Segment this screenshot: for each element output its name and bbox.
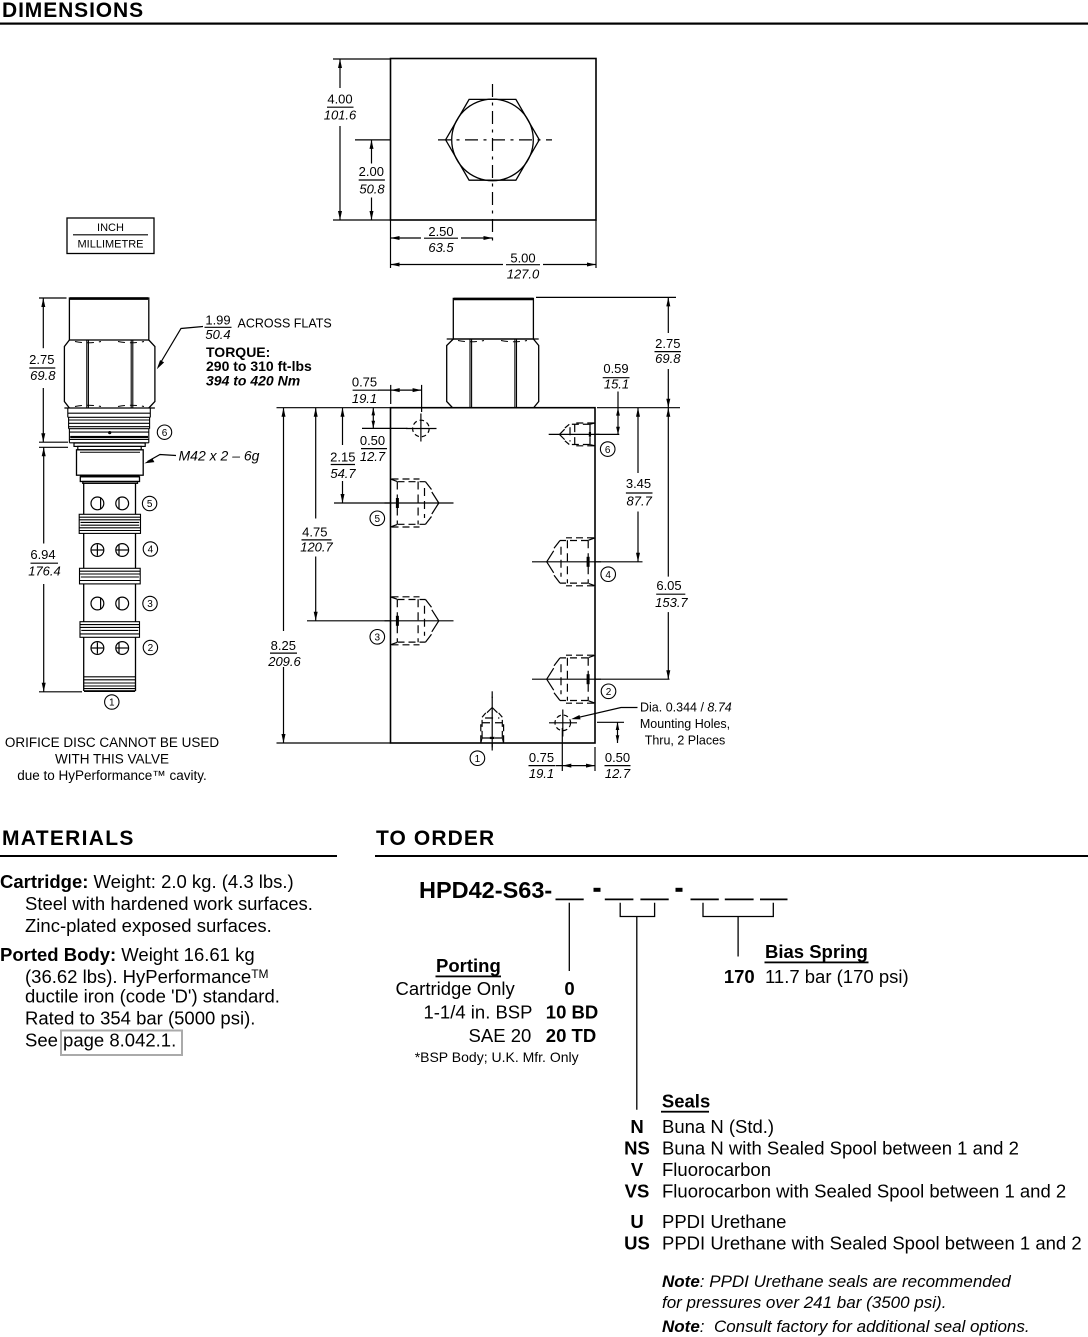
port 4 [532, 538, 601, 586]
heading DIMENSIONS [0, 0, 1088, 25]
dim 0.50 bottom [597, 722, 624, 743]
svg-text:1.99: 1.99 [205, 313, 230, 328]
dim 0.50 top [362, 408, 408, 429]
body bottom edge extension left [277, 742, 391, 744]
svg-text:2: 2 [148, 643, 154, 654]
svg-text:63.5: 63.5 [428, 240, 454, 255]
svg-text:19.1: 19.1 [529, 766, 554, 781]
svg-text:1: 1 [475, 754, 481, 765]
body label 3 [370, 630, 385, 645]
seals bracket [620, 903, 654, 1110]
svg-text:MATERIALS: MATERIALS [2, 827, 135, 850]
port 6 centerline extension [595, 433, 619, 435]
port 2 centerline extension [595, 678, 670, 680]
svg-text:127.0: 127.0 [507, 267, 540, 282]
leader across flats [158, 327, 203, 367]
porting drop line [568, 903, 570, 971]
svg-text:0.59: 0.59 [603, 361, 628, 376]
porting underline [436, 976, 502, 978]
svg-text:4.00: 4.00 [327, 92, 352, 107]
port label 5 cartridge [142, 496, 156, 510]
svg-text:50.8: 50.8 [359, 181, 385, 196]
order blanks [556, 898, 788, 900]
svg-text:3.45: 3.45 [626, 476, 651, 491]
svg-text:5: 5 [375, 514, 381, 525]
leader M42 [148, 455, 177, 462]
svg-text:2.75: 2.75 [655, 336, 680, 351]
svg-text:ductile iron (code 'D') standa: ductile iron (code 'D') standard. [25, 986, 280, 1007]
svg-text:due to HyPerformance™ cavity.: due to HyPerformance™ cavity. [17, 768, 207, 783]
svg-text:WITH THIS VALVE: WITH THIS VALVE [55, 752, 169, 767]
svg-text:69.8: 69.8 [30, 368, 56, 383]
dim 2.00/50.8 [371, 140, 373, 220]
dim 5.00/127.0 [391, 220, 597, 268]
svg-text:MILLIMETRE: MILLIMETRE [77, 239, 143, 251]
centerline vertical [492, 84, 494, 246]
svg-text:Cartridge: Weight: 2.0 kg. (4.: Cartridge: Weight: 2.0 kg. (4.3 lbs.) [0, 871, 294, 892]
svg-text:See page 8.042.1.: See page 8.042.1. [25, 1030, 176, 1051]
cartridge cap [69, 298, 148, 340]
svg-text:11.7 bar (170 psi): 11.7 bar (170 psi) [765, 966, 909, 987]
cartridge seal ring stack [68, 408, 151, 443]
dim 2.75/69.8 cartridge [39, 298, 68, 442]
svg-text:176.4: 176.4 [28, 564, 61, 579]
svg-text:6.05: 6.05 [656, 578, 681, 593]
svg-text:0.50: 0.50 [360, 433, 385, 448]
note TORQUE [206, 344, 312, 389]
body cap [453, 298, 533, 339]
svg-text:U: U [630, 1211, 643, 1232]
body label 5 [370, 511, 385, 526]
body label 1 [470, 751, 485, 766]
port label 4 cartridge [143, 542, 157, 556]
svg-text:8.25: 8.25 [271, 638, 296, 653]
svg-text:Steel with hardened work surfa: Steel with hardened work surfaces. [25, 893, 313, 914]
cap top extension right [536, 296, 676, 298]
svg-text:1: 1 [109, 698, 115, 709]
bias spring block [724, 941, 909, 987]
svg-text:69.8: 69.8 [655, 351, 681, 366]
groove band 2 [80, 568, 141, 584]
port 2 [532, 655, 601, 703]
svg-text:Rated to 354 bar (5000 psi).: Rated to 354 bar (5000 psi). [25, 1008, 255, 1029]
svg-text:5.00: 5.00 [510, 251, 535, 266]
note 1.99/50.4 ACROSS FLATS [205, 313, 332, 343]
cross holes row 2 [91, 642, 129, 655]
svg-text:10 BD: 10 BD [546, 1002, 598, 1023]
dim 4.75/120.7 [315, 408, 317, 621]
svg-text:120.7: 120.7 [300, 540, 333, 555]
svg-text:12.7: 12.7 [605, 766, 631, 781]
svg-text:4.75: 4.75 [302, 524, 327, 539]
svg-text:0.50: 0.50 [605, 750, 630, 765]
svg-text:50.4: 50.4 [205, 327, 230, 342]
svg-text:101.6: 101.6 [324, 108, 357, 123]
svg-text:Zinc-plated exposed surfaces.: Zinc-plated exposed surfaces. [25, 915, 272, 936]
spool nose [84, 677, 135, 692]
svg-text:12.7: 12.7 [360, 449, 386, 464]
note M42 thread [179, 448, 260, 464]
svg-text:2.15: 2.15 [330, 449, 355, 464]
svg-text:4: 4 [605, 570, 611, 581]
svg-text:15.1: 15.1 [604, 377, 629, 392]
body top edge extension left [277, 407, 391, 409]
port label 3 cartridge [143, 596, 157, 610]
dim 0.75 top [378, 385, 422, 412]
svg-text:PPDI Urethane with Sealed Spoo: PPDI Urethane with Sealed Spool between … [662, 1233, 1082, 1254]
svg-text:87.7: 87.7 [627, 493, 653, 508]
cross holes row 4 [91, 544, 129, 557]
porting block [396, 955, 599, 1065]
svg-text:Fluorocarbon: Fluorocarbon [662, 1159, 771, 1180]
groove band 1 [79, 514, 140, 533]
cross holes row 3 [91, 597, 129, 610]
dim 0.59/15.1 [617, 392, 619, 435]
svg-text:4: 4 [148, 545, 154, 556]
svg-text:Bias Spring: Bias Spring [765, 941, 868, 962]
svg-text:VS: VS [625, 1181, 650, 1202]
svg-text:Cartridge Only: Cartridge Only [396, 978, 516, 999]
dim 4.00/101.6 [333, 59, 390, 220]
body label 2 [601, 684, 616, 699]
port 5 [385, 479, 454, 527]
port label 1 cartridge [105, 695, 119, 709]
seal notes [662, 1272, 1030, 1336]
body outline top view [391, 59, 597, 221]
dim 2.50/63.5 [391, 220, 493, 243]
svg-text:Porting: Porting [436, 955, 501, 976]
svg-text:0.75: 0.75 [529, 750, 554, 765]
svg-text:Dia. 0.344 / 8.74: Dia. 0.344 / 8.74 [640, 701, 732, 715]
seals underline [661, 1111, 709, 1113]
dim 6.94/176.4 cartridge [39, 447, 82, 692]
body label 6 [600, 442, 615, 457]
page reference box [61, 1031, 182, 1056]
svg-text:Buna N (Std.): Buna N (Std.) [662, 1116, 774, 1137]
dim 8.25/209.6 [283, 408, 285, 743]
port label 6 cartridge [157, 425, 171, 439]
svg-text:(36.62 lbs). HyPerformanceTM: (36.62 lbs). HyPerformanceTM [25, 966, 269, 987]
svg-text:Ported Body: Weight 16.61 kg: Ported Body: Weight 16.61 kg [0, 944, 255, 965]
svg-text:DIMENSIONS: DIMENSIONS [2, 0, 144, 22]
svg-text:*BSP Body; U.K. Mfr. Only: *BSP Body; U.K. Mfr. Only [415, 1049, 579, 1065]
body hex [447, 339, 539, 408]
cartridge neck step [74, 443, 145, 450]
svg-text:Thru, 2 Places: Thru, 2 Places [645, 734, 726, 748]
materials text [0, 871, 313, 1051]
port 1 centerline extension [491, 691, 493, 750]
cartridge spool tube [84, 483, 136, 691]
dim 3.45/87.7 [637, 408, 639, 562]
svg-text:170: 170 [724, 966, 755, 987]
svg-text:US: US [624, 1233, 650, 1254]
port 5 centerline extension [334, 502, 390, 504]
svg-text:SAE 20: SAE 20 [469, 1025, 532, 1046]
heading MATERIALS [0, 827, 337, 857]
bias underline [765, 962, 869, 964]
svg-text:209.6: 209.6 [267, 654, 301, 669]
svg-text:6.94: 6.94 [30, 547, 55, 562]
svg-text:Fluorocarbon with Sealed Spool: Fluorocarbon with Sealed Spool between 1… [662, 1181, 1066, 1202]
svg-text:2.75: 2.75 [29, 352, 54, 367]
cartridge hex [64, 340, 154, 408]
svg-text:NS: NS [624, 1138, 650, 1159]
svg-text:ACROSS FLATS: ACROSS FLATS [238, 317, 332, 331]
svg-text:Note: Consult factory for add: Note: Consult factory for additional sea… [662, 1317, 1030, 1336]
svg-text:6: 6 [162, 428, 168, 439]
centerline horizontal [438, 139, 552, 141]
svg-text:3: 3 [375, 633, 381, 644]
note orifice disc [5, 735, 220, 783]
svg-text:HPD42-S63-: HPD42-S63- [419, 877, 552, 903]
svg-text:Seals: Seals [662, 1091, 710, 1112]
svg-text:20 TD: 20 TD [546, 1025, 596, 1046]
svg-text:5: 5 [147, 499, 153, 510]
dim 6.05/153.7 [667, 408, 669, 680]
svg-text:Mounting Holes,: Mounting Holes, [640, 717, 730, 731]
svg-text:153.7: 153.7 [655, 595, 688, 610]
note mounting holes [640, 701, 732, 748]
svg-text:6: 6 [605, 445, 611, 456]
svg-text:1-1/4 in. BSP: 1-1/4 in. BSP [423, 1002, 532, 1023]
svg-text:N: N [630, 1116, 643, 1137]
extension line for 2.00 dim [355, 139, 390, 141]
groove band 3 [80, 622, 140, 638]
svg-text:2.00: 2.00 [359, 164, 384, 179]
port 1 [481, 697, 504, 748]
bias bracket [703, 903, 773, 957]
leader mounting holes [575, 708, 638, 719]
svg-text:TO ORDER: TO ORDER [376, 827, 495, 850]
svg-text:V: V [631, 1159, 644, 1180]
dim 2.75/69.8 right [667, 297, 669, 407]
svg-text:Note: PPDI Urethane seals are: Note: PPDI Urethane seals are recommende… [662, 1272, 1011, 1291]
dim 0.75 bottom [556, 728, 595, 771]
svg-text:PPDI Urethane: PPDI Urethane [662, 1211, 786, 1232]
svg-text:3: 3 [147, 599, 153, 610]
body label 4 [601, 567, 616, 582]
dim 2.15/54.7 [342, 408, 344, 503]
svg-text:19.1: 19.1 [352, 391, 377, 406]
port 6 [549, 423, 600, 446]
hex nut top view [446, 99, 540, 181]
svg-text:0: 0 [564, 978, 574, 999]
svg-text:0.75: 0.75 [352, 374, 377, 389]
svg-text:54.7: 54.7 [330, 466, 356, 481]
svg-text:INCH: INCH [97, 222, 124, 234]
seals block [624, 1091, 1081, 1254]
svg-text:ORIFICE DISC CANNOT BE USED: ORIFICE DISC CANNOT BE USED [5, 735, 220, 750]
order hyphens [594, 888, 683, 892]
svg-text:Buna N with Sealed Spool betwe: Buna N with Sealed Spool between 1 and 2 [662, 1138, 1019, 1159]
mounting hole bottom [549, 710, 577, 737]
INCH MILLIMETRE legend [67, 218, 154, 254]
cartridge thread M42 [77, 450, 144, 484]
body top edge extension right [597, 407, 680, 409]
svg-text:2.50: 2.50 [428, 224, 453, 239]
cross holes row 5 [91, 497, 129, 510]
svg-text:2: 2 [606, 687, 612, 698]
port 3 [385, 597, 454, 645]
svg-text:for pressures over 241 bar (35: for pressures over 241 bar (3500 psi). [662, 1293, 946, 1312]
svg-text:394 to 420 Nm: 394 to 420 Nm [206, 373, 300, 389]
port 4 centerline extension [595, 561, 643, 563]
port 3 centerline extension [307, 620, 390, 622]
order code [419, 877, 552, 903]
mounting hole top [406, 414, 437, 442]
svg-text:M42 x 2 – 6g: M42 x 2 – 6g [179, 448, 260, 464]
heading TO ORDER [375, 827, 1088, 857]
body outline [391, 408, 596, 743]
port label 2 cartridge [143, 640, 157, 654]
